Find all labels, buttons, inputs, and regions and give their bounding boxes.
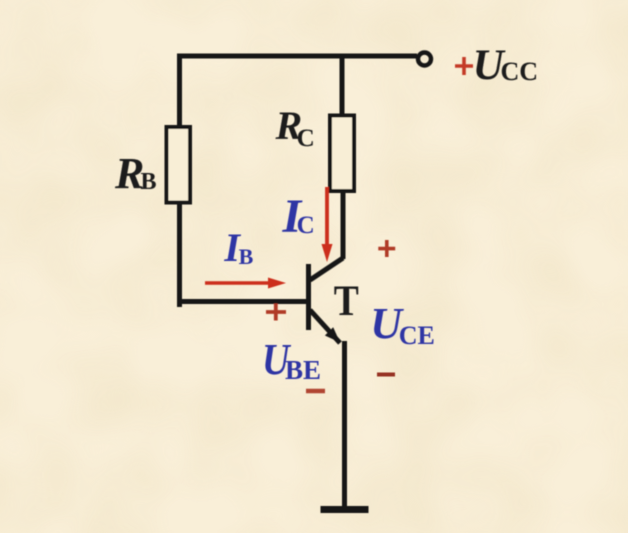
svg-text:B: B — [141, 169, 157, 195]
minus sign under UCE — [377, 373, 395, 377]
label RB — [114, 149, 157, 198]
minus sign under UBE — [306, 389, 325, 394]
wire collector branch top — [340, 54, 345, 117]
ground — [321, 506, 369, 513]
resistor RB — [167, 127, 191, 203]
wire base horizontal — [177, 299, 306, 304]
current arrow IC — [322, 187, 333, 262]
svg-text:BE: BE — [285, 355, 321, 385]
plus sign at collector — [378, 240, 395, 257]
label UBE — [262, 335, 321, 385]
svg-text:CE: CE — [399, 321, 435, 350]
svg-text:B: B — [239, 244, 254, 269]
transistor T emitter diagonal — [310, 310, 340, 343]
transistor T base bar — [306, 264, 311, 330]
svg-text:CC: CC — [501, 57, 539, 86]
transistor T emitter arrowhead — [325, 327, 340, 342]
current arrow IB — [205, 278, 286, 289]
wire left vertical upper — [177, 54, 182, 128]
transistor T collector diagonal — [310, 258, 343, 280]
label UCE — [370, 299, 435, 350]
label +UCC — [455, 42, 538, 89]
label IB — [223, 225, 253, 270]
svg-text:C: C — [297, 125, 315, 152]
wire collector vertical — [341, 193, 346, 259]
label RC — [275, 103, 315, 152]
wire left vertical lower — [177, 202, 182, 307]
resistor RC — [330, 116, 354, 192]
plus sign at base — [266, 304, 286, 321]
label IC — [282, 190, 315, 243]
wire top horizontal rail — [177, 54, 417, 59]
wire emitter vertical — [342, 341, 347, 506]
svg-text:T: T — [334, 277, 359, 325]
terminal UCC — [418, 53, 431, 66]
svg-text:C: C — [297, 212, 315, 239]
